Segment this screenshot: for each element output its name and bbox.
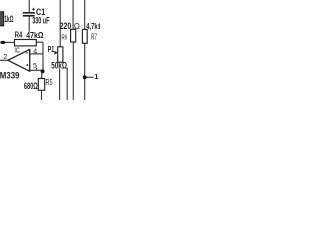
svg-text:R4: R4 bbox=[15, 31, 23, 40]
svg-text:680Ω: 680Ω bbox=[24, 81, 38, 91]
svg-text:220: 220 bbox=[60, 21, 72, 32]
svg-text:50kΩ: 50kΩ bbox=[51, 60, 67, 70]
svg-text:4: 4 bbox=[33, 48, 37, 55]
svg-text:P1: P1 bbox=[48, 44, 55, 54]
svg-text:Ω: Ω bbox=[98, 21, 100, 31]
svg-text:Ω: Ω bbox=[74, 22, 80, 31]
svg-text:5: 5 bbox=[33, 63, 37, 70]
svg-text:R7: R7 bbox=[91, 33, 97, 42]
svg-text:IC: IC bbox=[14, 45, 20, 54]
svg-text:R6: R6 bbox=[62, 33, 68, 42]
svg-text:330 uF: 330 uF bbox=[32, 15, 50, 25]
svg-text:2: 2 bbox=[3, 54, 7, 61]
svg-text:47kΩ: 47kΩ bbox=[26, 31, 43, 40]
svg-text:1kΩ: 1kΩ bbox=[4, 14, 13, 24]
svg-text:M339: M339 bbox=[0, 71, 19, 81]
svg-text:R5: R5 bbox=[46, 78, 53, 87]
svg-text:4,7k: 4,7k bbox=[86, 21, 98, 31]
